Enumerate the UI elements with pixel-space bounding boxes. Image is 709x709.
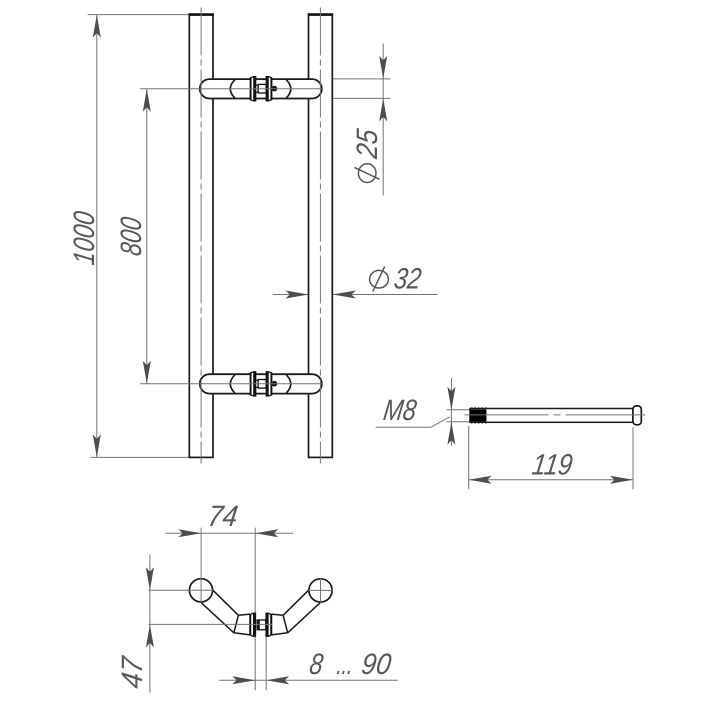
bottom view left circle (189, 579, 212, 602)
top connector left disc (250, 77, 255, 101)
bolt thread block (470, 409, 487, 421)
right circle horizontal centerline (308, 589, 333, 591)
arrow d32 right (333, 291, 356, 299)
M8 extension line upper (447, 409, 470, 411)
arrow 1000 top (93, 15, 101, 38)
arrow 1000 bottom (93, 434, 101, 457)
bolt thread crest dotted top (471, 407, 486, 409)
svg-text:90: 90 (359, 648, 393, 681)
extension line 74 left / left circle vertical centerline (200, 528, 202, 603)
dimension line 119 (469, 479, 633, 481)
arrow 74 left (178, 529, 201, 537)
svg-text:25: 25 (351, 127, 384, 161)
dimension line 74 (166, 532, 293, 534)
M8 extension line lower (447, 421, 470, 423)
extension line 74 right / glass face left line (254, 528, 256, 691)
extension line 119 left (468, 426, 470, 489)
arrow 800 bottom (143, 361, 151, 384)
arrow 74 right (255, 529, 278, 537)
top connector group (200, 77, 322, 101)
extension line 119 right (632, 427, 634, 489)
arrow 8-90 right (266, 676, 289, 684)
bottom view right circle (309, 579, 332, 602)
bottom view left leg (201, 589, 250, 635)
right tube (309, 15, 333, 458)
arrow 119 left (469, 476, 492, 484)
bottom view right leg (271, 589, 320, 635)
top connector small step (256, 85, 259, 92)
bottom view nut shaft (257, 620, 266, 630)
left tube centerline (200, 8, 202, 464)
top connector right disc (266, 77, 271, 101)
joint axis / 47 extension bottom (149, 623, 273, 625)
bolt head (633, 406, 641, 425)
extension line d25 bottom (322, 97, 391, 99)
svg-text:119: 119 (530, 449, 575, 482)
extension line d25 top (322, 78, 391, 80)
diameter symbol of d25 (354, 164, 379, 183)
arrow d25 top (379, 56, 387, 79)
svg-text:800: 800 (115, 215, 148, 258)
bolt thread crest dotted bottom (471, 422, 486, 424)
svg-text:M8: M8 (381, 394, 419, 427)
diameter symbol of d32 (370, 266, 389, 291)
right circle vertical centerline (320, 578, 322, 602)
top connector left arc (230, 80, 235, 98)
bottom view left flange disc (250, 613, 256, 636)
right tube centerline (319, 8, 321, 464)
dimension line 800 (146, 89, 148, 384)
left tube top end face (189, 13, 214, 16)
right tube top end face (308, 13, 333, 16)
arrow 119 right (610, 476, 633, 484)
glass face right line (265, 637, 267, 691)
bottom connector group (copy shifted) (200, 372, 322, 396)
dimension line 47 (149, 555, 151, 693)
svg-text:1000: 1000 (68, 209, 101, 267)
M8 dimension line vertical (450, 378, 452, 446)
svg-text:74: 74 (206, 500, 240, 533)
extension line top of 1000 dim (88, 14, 190, 16)
arrow d32 left (285, 291, 308, 299)
top connector axis / 800 extension top (140, 88, 322, 90)
dimension line d32 (273, 294, 438, 296)
M8 leader polyline (376, 417, 450, 427)
left tube (189, 15, 213, 458)
arrow M8 bottom (447, 422, 455, 445)
extension line 47 top / left circle horizontal centerline (149, 589, 214, 591)
extension line bottom of 1000 dim (91, 456, 190, 458)
arrow 8-90 left (232, 676, 255, 684)
svg-text:47: 47 (116, 653, 149, 690)
dimension line 8-90 (219, 679, 398, 681)
top connector capsule (200, 79, 322, 98)
arrow 800 top (143, 89, 151, 112)
bolt shank (470, 409, 633, 423)
bottom view right flange disc (266, 613, 272, 636)
bolt centerline (465, 414, 646, 416)
top connector right arc (286, 80, 291, 98)
dimension line 1000 (96, 15, 98, 458)
arrow d25 bottom (379, 98, 387, 121)
svg-text:32: 32 (392, 263, 424, 296)
arrow 47 bottom (146, 624, 154, 647)
bottom connector axis / 800 extension bottom (140, 383, 322, 385)
top connector shaft (258, 84, 266, 93)
arrow 47 top (146, 567, 154, 590)
top connector set screw dot (272, 86, 278, 92)
dimension line d25 (382, 44, 384, 196)
arrow M8 top (447, 387, 455, 410)
